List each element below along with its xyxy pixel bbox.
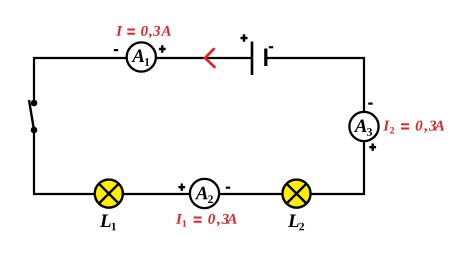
battery minus sign — [269, 46, 273, 48]
switch S1 top contact dot — [31, 100, 38, 107]
ammeter A1 circle — [127, 42, 156, 71]
ammeter A2 circle — [190, 179, 219, 208]
battery plus sign — [241, 34, 248, 41]
red label I = 0,3A above A1 — [116, 26, 171, 38]
ammeter A2 label — [195, 187, 213, 203]
A1 minus sign — [114, 49, 118, 51]
lamp L1 cross — [99, 184, 119, 204]
lamp L1 label — [100, 215, 116, 231]
lamp L2 cross — [287, 184, 307, 204]
A1 plus sign — [159, 45, 166, 52]
ammeter A1 label — [131, 49, 149, 65]
wire: L1 to bottom-left corner and up to switch — [34, 131, 94, 194]
wire: L2 to A2 — [219, 193, 282, 195]
lamp L2 circle — [282, 180, 310, 208]
A2 minus sign — [226, 187, 230, 189]
wire: A1 to battery positive plate — [156, 57, 251, 59]
lamp L1 circle — [95, 180, 123, 208]
wire: left rail upper segment and top rail to A1 — [34, 58, 126, 103]
lamp L2 label — [288, 215, 304, 231]
battery B1 negative plate (short) — [264, 49, 267, 67]
switch S1 bottom contact dot — [31, 127, 38, 134]
battery B1 positive plate (long) — [251, 42, 254, 76]
current direction arrow (red) on top wire — [205, 49, 215, 67]
red label I2 = 0,3A right of A3 — [383, 121, 444, 134]
A3 plus sign — [369, 144, 376, 151]
switch S1 lever (open) — [29, 100, 34, 130]
wire: battery negative plate to top-right corner down to A3 — [266, 58, 364, 112]
ammeter A3 circle — [349, 112, 378, 141]
wire: A3 to bottom-right corner and to L2 — [311, 141, 364, 194]
ammeter A3 label — [354, 119, 372, 135]
wire: A2 to L1 — [123, 193, 190, 195]
red label I1 = 0,3A below A2 — [176, 214, 237, 227]
A2 plus sign — [178, 184, 185, 191]
A3 minus sign — [368, 102, 372, 104]
